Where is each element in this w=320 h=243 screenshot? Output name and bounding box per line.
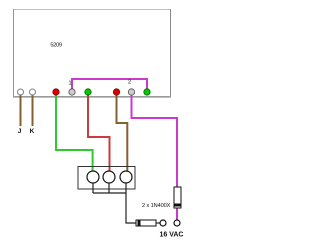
wire green (red pin 3 to connector circle 1) <box>56 94 93 172</box>
pin K terminal circle <box>30 89 36 95</box>
pin 6 red terminal <box>113 89 119 95</box>
wire magenta 3 (diode D2 to terminal circle 2) <box>176 208 178 220</box>
svg-text:K: K <box>30 128 35 135</box>
wire magenta 1 (gray pin 1 to green pin 8) <box>72 79 147 90</box>
terminal circle 1 (16 VAC) <box>160 220 166 226</box>
pin 5 green terminal <box>85 89 91 95</box>
wire stub circle1 to bus <box>92 183 94 193</box>
wire stub circle2 to bus <box>108 183 110 193</box>
terminal circle 2 (16 VAC) <box>174 220 180 226</box>
svg-text:16 VAC: 16 VAC <box>160 232 184 239</box>
pin 8 green terminal <box>144 89 150 95</box>
connector circle 2 <box>103 171 115 183</box>
wire bus to diode D1 <box>126 193 136 223</box>
wire diode D1 to terminal 1 <box>156 222 160 224</box>
module U1 body left edge <box>13 9 15 97</box>
module U1 body bottom edge <box>13 96 171 98</box>
svg-text:1: 1 <box>68 81 71 87</box>
wire bus horizontal <box>93 192 126 194</box>
diode D2 cathode band <box>174 204 181 207</box>
connector circle 3 <box>120 171 132 183</box>
wire brown (red pin 6 to connector circle 3) <box>117 94 128 172</box>
wire K (brown) <box>32 95 34 126</box>
wire J (brown) <box>20 95 22 126</box>
diode D1 body (horizontal) <box>136 220 156 226</box>
module U1 body right edge <box>170 9 172 97</box>
pin 1 gray terminal <box>69 89 75 95</box>
svg-text:J: J <box>18 128 22 135</box>
wire red (green pin 5 to connector circle 2) <box>88 94 110 172</box>
connector block J1 outline <box>78 167 135 190</box>
diode D2 body (vertical) <box>174 187 181 208</box>
pin 2 gray terminal <box>128 89 134 95</box>
pin J terminal circle <box>18 89 24 95</box>
svg-text:5209: 5209 <box>50 43 61 49</box>
pin 3 red terminal <box>53 89 59 95</box>
svg-text:2 x 1N400X: 2 x 1N400X <box>142 203 171 209</box>
svg-text:2: 2 <box>128 80 131 86</box>
module U1 body top edge <box>13 9 171 11</box>
connector circle 1 <box>87 171 99 183</box>
wire stub circle3 to bus <box>125 183 127 193</box>
diode D1 cathode band <box>138 220 141 226</box>
wire magenta 2 (gray pin 2 to diode D2) <box>132 94 178 187</box>
